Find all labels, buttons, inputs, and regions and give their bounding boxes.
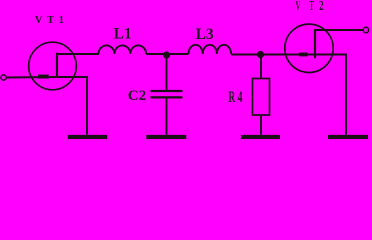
- transistor VT2: [285, 24, 333, 72]
- transistor VT1: [29, 42, 77, 90]
- wire C2 bottom: [166, 99, 168, 136]
- transistor VT2 gate bar: [299, 53, 308, 57]
- wire L3 to VT2 gate: [231, 54, 299, 56]
- inductor L1: [99, 45, 147, 54]
- wire source VT2: [315, 55, 346, 136]
- svg-text:L1: L1: [114, 25, 132, 42]
- wire drain VT2 to output: [315, 29, 363, 31]
- wire R4 bottom: [260, 115, 262, 136]
- wire C2 top: [166, 55, 168, 91]
- wire source VT1: [57, 77, 87, 136]
- inductor L3: [189, 45, 232, 54]
- ground VT2: [328, 135, 368, 139]
- wire R4 top: [260, 55, 262, 79]
- transistor VT2 channel: [314, 29, 316, 58]
- input terminal: [1, 75, 6, 80]
- transistor VT1 channel: [56, 53, 58, 78]
- node junction C2: [163, 51, 170, 58]
- resistor R4: [253, 79, 270, 116]
- capacitor C2 plate bottom: [151, 96, 183, 98]
- svg-text:VT1: VT1: [35, 14, 64, 26]
- transistor VT1 gate bar: [38, 75, 49, 79]
- svg-text:VT2: VT2: [296, 0, 324, 14]
- wire L1 to L3: [146, 53, 188, 55]
- svg-text:C2: C2: [128, 88, 146, 104]
- output terminal: [363, 27, 368, 32]
- ground C2: [146, 135, 186, 139]
- svg-text:R 4: R 4: [228, 89, 242, 106]
- ground R4: [241, 135, 280, 139]
- svg-text:L3: L3: [196, 26, 214, 43]
- wire gate bar to VT2 channel: [307, 54, 316, 56]
- wire gate VT1: [6, 76, 57, 79]
- node junction R4: [257, 51, 264, 58]
- wire drain VT1 to L1: [57, 53, 99, 55]
- capacitor C2 plate top: [151, 90, 183, 92]
- ground VT1: [68, 135, 107, 139]
